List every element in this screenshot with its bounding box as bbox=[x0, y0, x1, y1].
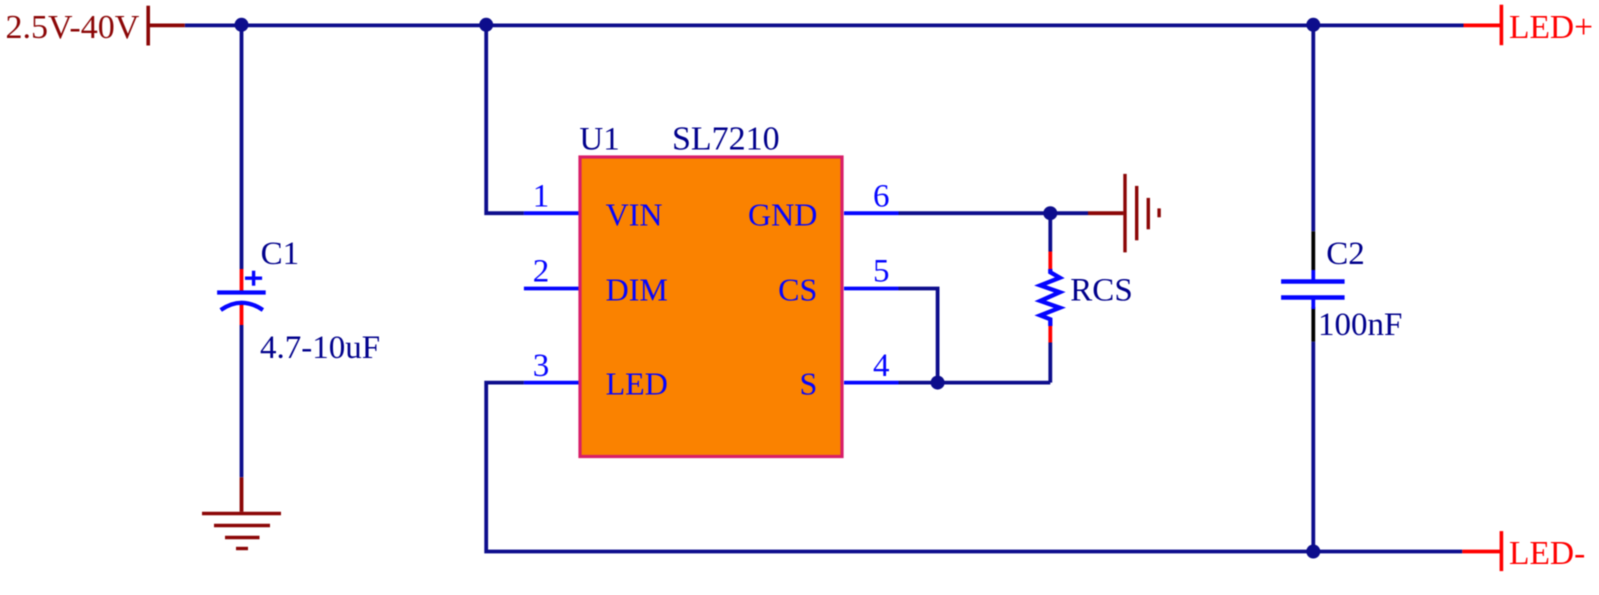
svg-text:100nF: 100nF bbox=[1318, 307, 1402, 343]
svg-text:C2: C2 bbox=[1326, 236, 1365, 272]
svg-text:SL7210: SL7210 bbox=[672, 121, 780, 158]
svg-text:4.7-10uF: 4.7-10uF bbox=[260, 330, 380, 366]
svg-text:S: S bbox=[800, 366, 818, 402]
svg-text:1: 1 bbox=[533, 178, 550, 214]
svg-text:LED: LED bbox=[606, 366, 668, 402]
svg-text:C1: C1 bbox=[261, 236, 300, 272]
svg-text:LED-: LED- bbox=[1509, 535, 1585, 572]
svg-text:5: 5 bbox=[873, 254, 890, 290]
svg-text:GND: GND bbox=[748, 196, 817, 232]
svg-text:4: 4 bbox=[873, 348, 890, 384]
svg-text:VIN: VIN bbox=[606, 196, 663, 232]
svg-text:RCS: RCS bbox=[1070, 273, 1132, 309]
svg-text:DIM: DIM bbox=[606, 272, 668, 308]
svg-text:LED+: LED+ bbox=[1509, 9, 1593, 46]
svg-text:CS: CS bbox=[778, 272, 817, 308]
svg-text:3: 3 bbox=[533, 348, 550, 384]
svg-text:2: 2 bbox=[533, 254, 550, 290]
svg-text:U1: U1 bbox=[579, 122, 619, 158]
svg-text:6: 6 bbox=[873, 178, 890, 214]
svg-text:2.5V-40V: 2.5V-40V bbox=[6, 9, 140, 46]
